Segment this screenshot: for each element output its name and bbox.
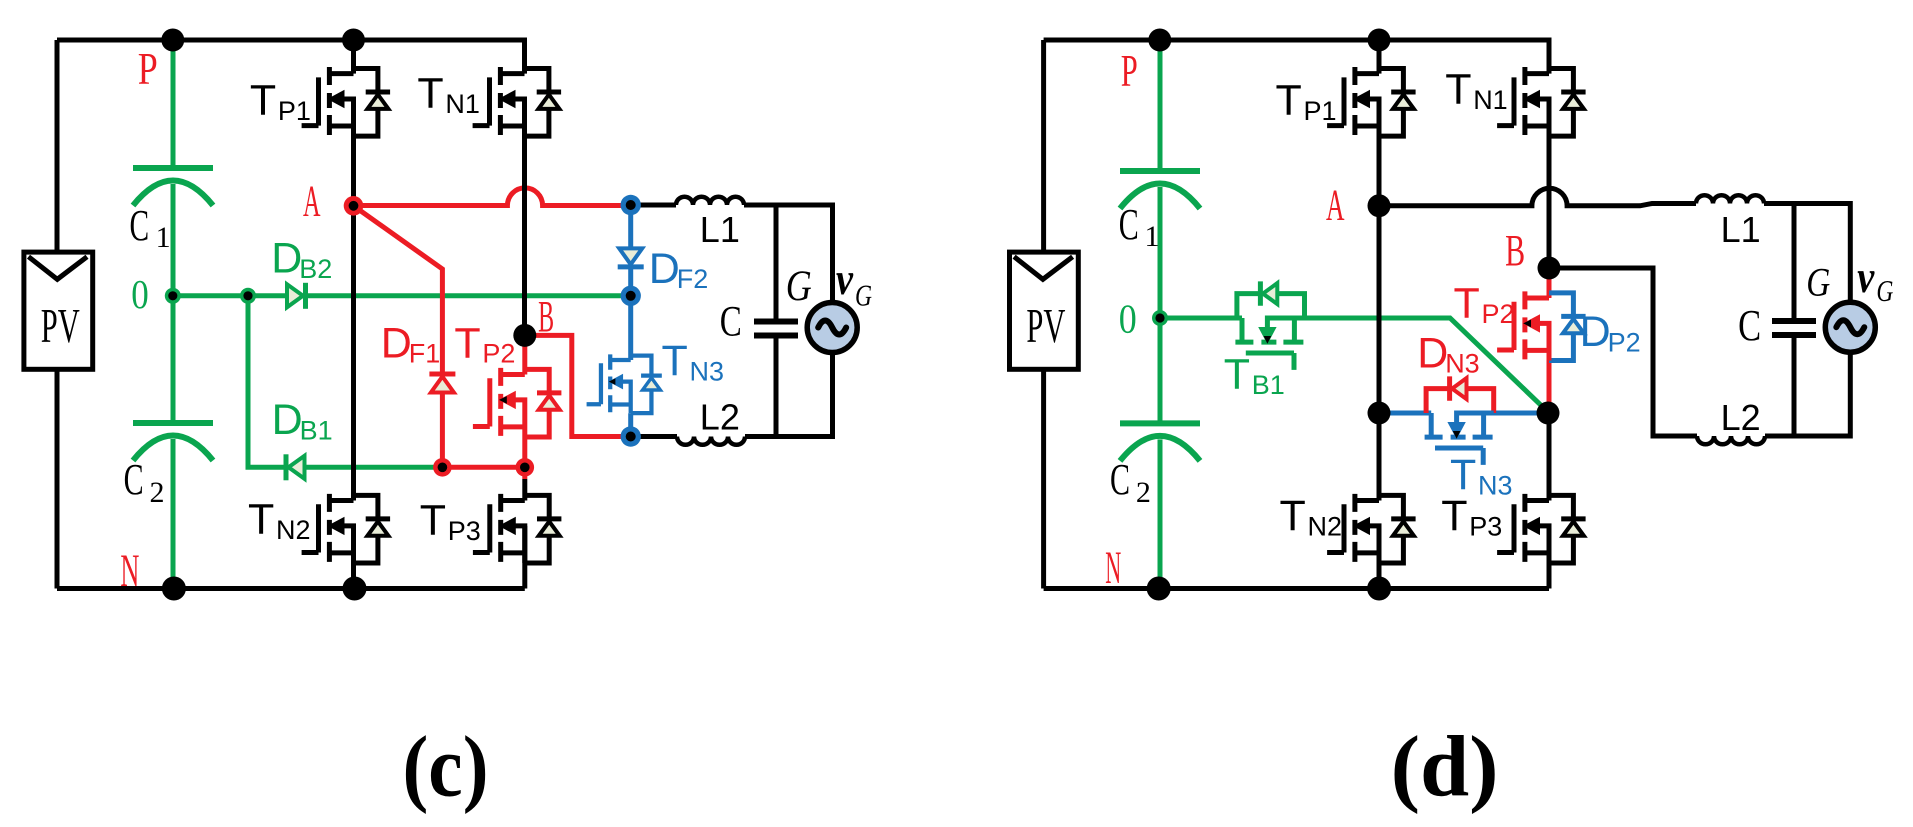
transistor TN3 with diode DN3 (d): [1425, 376, 1494, 465]
PV source (d): [1010, 252, 1079, 369]
transistor TN3 (c): [587, 354, 662, 413]
svg-text:G: G: [786, 263, 812, 310]
svg-text:0: 0: [1119, 295, 1137, 341]
inductor L2 (c): [677, 437, 745, 445]
capacitor C1: [133, 165, 213, 171]
diode DB2: [287, 284, 303, 307]
svg-text:0: 0: [131, 271, 149, 317]
wire TP3 source to rail (d): [1547, 526, 1552, 589]
svg-text:L1: L1: [1721, 209, 1761, 250]
wire bottom rail (c): [57, 586, 525, 591]
svg-text:P: P: [1121, 45, 1138, 96]
svg-text:G: G: [1806, 260, 1830, 305]
svg-text:N: N: [1105, 542, 1121, 594]
svg-text:T: T: [248, 496, 274, 544]
svg-text:C: C: [720, 299, 742, 346]
wire red TP2 source to node (d): [1547, 361, 1552, 413]
wire green C1 to O node: [171, 184, 176, 296]
inductor L1 (c): [676, 197, 744, 205]
svg-text:P2: P2: [1608, 327, 1641, 357]
svg-text:1: 1: [156, 221, 171, 254]
svg-text:N: N: [120, 545, 139, 597]
wire top rail (c): [57, 40, 525, 74]
wire PV to bottom rail: [55, 369, 60, 588]
svg-text:D: D: [381, 319, 412, 367]
wire blue node line left (d): [1379, 411, 1431, 416]
svg-text:T: T: [1450, 451, 1476, 499]
wire green C1 to O (d): [1158, 187, 1163, 318]
svg-text:F2: F2: [677, 264, 709, 294]
transistor TN2 (d): [1327, 494, 1416, 563]
svg-text:N3: N3: [1478, 470, 1513, 500]
svg-text:L2: L2: [1721, 397, 1761, 438]
svg-text:D: D: [1580, 308, 1611, 356]
grid source vG (d): [1825, 302, 1875, 352]
svg-text:T: T: [1224, 351, 1250, 399]
svg-text:2: 2: [150, 476, 165, 509]
wire B-line to L2 (d): [1549, 268, 1697, 436]
svg-text:C: C: [1110, 455, 1130, 504]
wire PV to bottom rail (d): [1041, 369, 1046, 588]
wire vG to corner to L2 (d): [1765, 353, 1850, 437]
inductor L2 (d): [1697, 436, 1765, 444]
svg-text:v: v: [1857, 251, 1874, 302]
wire blue A-out node to DF2: [628, 205, 633, 247]
wire black node to TP3 drain: [522, 479, 527, 501]
wire bottom rail (d): [1044, 586, 1549, 591]
wire green O to C2: [171, 296, 176, 421]
wire blue TN3 source to L2 node: [628, 413, 633, 436]
svg-text:L1: L1: [700, 209, 740, 250]
svg-text:2: 2: [1136, 476, 1151, 509]
wire L1 to corner to vG (d): [1764, 204, 1850, 303]
diode DF1: [431, 377, 454, 393]
wire left down to PV: [55, 40, 60, 252]
inductor L1 (d): [1696, 195, 1764, 203]
wire left leg TN2 source to rail (d): [1377, 526, 1382, 589]
wire green O-line O to DB2: [173, 293, 286, 298]
wire right leg TN1 source to B (d): [1547, 99, 1552, 268]
wire left leg TP1 source to A to TN2: [351, 99, 356, 501]
svg-text:D: D: [1417, 329, 1448, 377]
svg-text:C: C: [1738, 301, 1761, 350]
node A dot (c): [344, 196, 364, 216]
wire green DB1 to DF1 node: [306, 465, 443, 470]
wire green DB2 to node (c) blue dot: [306, 293, 631, 298]
transistor TN1: [473, 67, 561, 136]
svg-text:T: T: [662, 337, 688, 385]
svg-text:T: T: [1280, 492, 1306, 540]
wire green C-link vertical P to C1: [171, 40, 176, 166]
node dot TP2 source: [516, 458, 535, 477]
svg-text:P3: P3: [448, 516, 481, 546]
svg-text:D: D: [649, 245, 680, 293]
svg-text:T: T: [1441, 492, 1467, 540]
svg-text:B: B: [1505, 226, 1525, 275]
wire green C2 to N node: [171, 439, 176, 589]
svg-text:B1: B1: [300, 416, 333, 446]
svg-text:N2: N2: [1308, 512, 1343, 542]
wire out-top node to L1: [631, 203, 676, 208]
svg-text:G: G: [855, 278, 872, 313]
node B dot (c): [513, 324, 536, 347]
wire red B to TP2 drain (d): [1547, 268, 1552, 298]
wire green O to C2 (d): [1158, 318, 1163, 421]
wire green P to C1 (d): [1158, 40, 1163, 169]
capacitor C (d): [1792, 204, 1797, 437]
node dot bottom TN2: [343, 577, 367, 601]
svg-text:N1: N1: [1473, 85, 1508, 115]
svg-text:PV: PV: [1026, 298, 1065, 353]
svg-text:D: D: [271, 235, 302, 283]
svg-text:P1: P1: [278, 96, 311, 126]
transistor TP3: [473, 494, 561, 563]
wire L2 to out-bottom node: [631, 434, 677, 439]
wire A-line with hopover (d): [1379, 188, 1696, 206]
svg-text:F1: F1: [409, 339, 441, 369]
wire left leg TN2 source to rail: [351, 526, 356, 589]
transistor TP1: [302, 67, 391, 136]
wire green TB1 to diagonal to node: [1267, 318, 1548, 412]
node dot DF1 bottom: [433, 458, 452, 477]
svg-text:v: v: [836, 253, 853, 304]
transistor TP2 (c): [473, 368, 561, 437]
node O branch dot: [240, 288, 256, 304]
svg-text:1: 1: [1145, 220, 1160, 253]
svg-text:T: T: [454, 319, 480, 367]
svg-text:T: T: [1454, 280, 1480, 328]
svg-text:C: C: [1119, 200, 1139, 249]
wire left leg TP1 drain: [351, 40, 356, 74]
svg-text:P1: P1: [1304, 96, 1337, 126]
wire left leg TP1 drain (d): [1377, 40, 1382, 74]
svg-text:T: T: [1445, 66, 1471, 114]
svg-text:B1: B1: [1252, 370, 1285, 400]
wire green O to TB1: [1160, 316, 1242, 321]
diode DB1: [289, 456, 305, 479]
node P dot (d): [1148, 29, 1171, 52]
node O dot (d): [1152, 310, 1168, 326]
svg-text:P3: P3: [1469, 512, 1502, 542]
node dot out bottom (c): [621, 426, 641, 446]
capacitor C (c): [774, 205, 779, 437]
transistor TP1 (d): [1327, 67, 1416, 136]
node P dot: [161, 29, 184, 52]
capacitor C1 (d): [1120, 168, 1200, 174]
node dot top TP1: [342, 29, 365, 52]
node dot bottom TN2 (d): [1367, 577, 1391, 601]
wire blue DF2 to green node to TN3: [628, 267, 633, 360]
node N dot (d): [1147, 577, 1171, 601]
svg-text:C: C: [124, 455, 144, 504]
wire TP3 source to rail: [522, 526, 527, 589]
svg-text:T: T: [420, 497, 446, 545]
capacitor C2 (d): [1120, 420, 1200, 426]
node dot left (d): [1368, 402, 1391, 425]
wire red bottom DF1-node to TP3-node: [442, 467, 524, 479]
circuit (d): [1010, 29, 1894, 815]
svg-text:T: T: [1276, 77, 1302, 125]
wire right leg TN1 source to B: [522, 99, 527, 335]
wire green C2 to N (d): [1158, 439, 1163, 588]
wire node to TP3 drain (d): [1547, 412, 1552, 501]
node dot out top (c): [621, 195, 641, 215]
node O dot (c): [165, 288, 181, 304]
wire blue node line right (d): [1457, 411, 1549, 416]
svg-text:T: T: [250, 77, 276, 125]
svg-text:P2: P2: [1482, 299, 1515, 329]
node dot right (d): [1537, 402, 1560, 425]
wire red diagonal A to DF1: [354, 206, 443, 374]
svg-text:N2: N2: [276, 515, 311, 545]
wire green branch down to DB1 line: [248, 296, 286, 468]
transistor TP2 with diode DP2 (d): [1497, 291, 1586, 360]
svg-text:L2: L2: [700, 396, 740, 437]
svg-text:(c): (c): [403, 718, 489, 815]
wire red TP2 source to node: [522, 437, 527, 467]
wire vG to bottom corner to L2: [745, 353, 833, 437]
svg-text:B: B: [538, 292, 554, 341]
transistor TN2: [302, 494, 391, 563]
capacitor C2: [133, 420, 213, 426]
svg-text:A: A: [1326, 181, 1345, 230]
svg-text:N3: N3: [690, 357, 725, 387]
wire left down to PV (d): [1041, 40, 1046, 252]
svg-text:N3: N3: [1445, 349, 1480, 379]
node N dot: [162, 577, 186, 601]
wire red B-line to L2 node: [525, 335, 631, 436]
svg-text:G: G: [1876, 273, 1893, 308]
transistor TP3 (d): [1497, 494, 1586, 563]
svg-text:P2: P2: [482, 339, 515, 369]
svg-text:(d): (d): [1391, 718, 1499, 815]
node dot top TP1 (d): [1368, 29, 1391, 52]
svg-text:B2: B2: [299, 254, 332, 284]
PV source (c): [24, 252, 93, 369]
svg-text:D: D: [272, 396, 303, 444]
svg-text:N1: N1: [445, 89, 480, 119]
svg-text:C: C: [130, 201, 150, 250]
node dot out mid (c): [621, 286, 641, 306]
circuit (c): [24, 29, 872, 815]
transistor TN1 (d): [1497, 67, 1586, 136]
node B dot (d): [1538, 257, 1561, 280]
svg-text:A: A: [303, 177, 321, 226]
svg-text:PV: PV: [41, 298, 80, 353]
wire left leg TP1 source to A to TN2 (d): [1377, 99, 1382, 501]
wire red B to TP2 drain: [522, 335, 527, 374]
transistor TB1 (d): [1235, 281, 1304, 370]
svg-text:T: T: [417, 69, 443, 117]
wire red DF1 to bottom node: [440, 393, 445, 468]
wire L1 to right corner down to vG: [744, 205, 833, 303]
svg-text:P: P: [138, 43, 158, 94]
wire top rail (d): [1044, 40, 1549, 74]
wire red A-line with hopover: [354, 188, 631, 206]
diode DF2: [619, 248, 642, 264]
grid source vG (c): [807, 303, 857, 353]
node A dot (d): [1368, 194, 1391, 217]
